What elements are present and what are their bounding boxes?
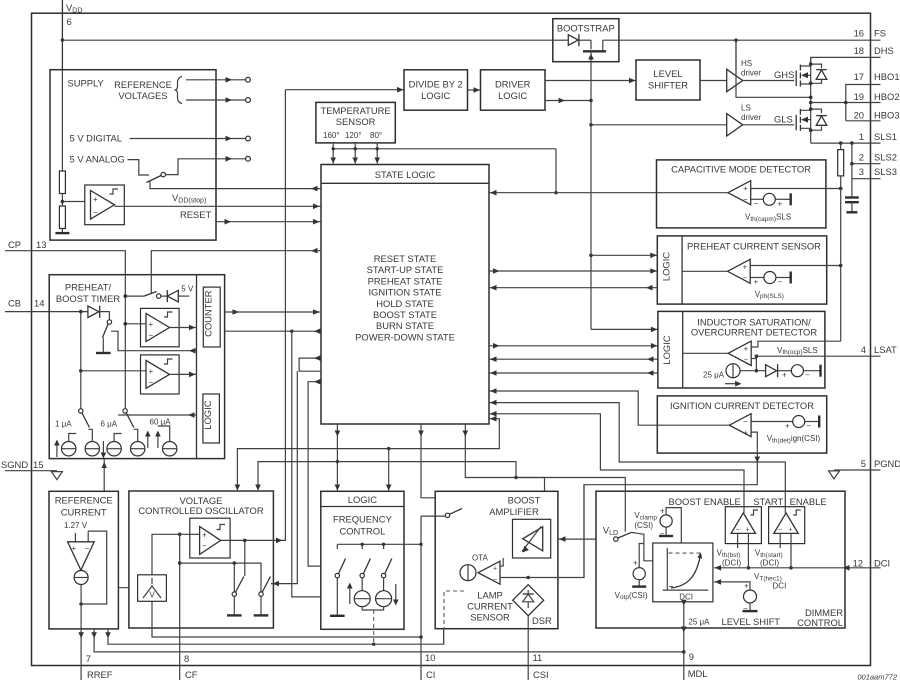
svg-text:VOLTAGE: VOLTAGE [180, 495, 223, 506]
resistor supply R1 [59, 70, 65, 194]
label 001aam772 [857, 673, 897, 682]
wire lamp bus corner [443, 629, 445, 644]
wire LS driver to GLS gate [743, 124, 795, 126]
source Vclamp [634, 507, 681, 544]
svg-text:+: + [744, 345, 749, 354]
schmitt BOOST ENABLE [725, 507, 761, 544]
svg-text:−: − [754, 199, 759, 208]
wire CI up to lamp switch [421, 515, 445, 517]
svg-text:SLS2: SLS2 [874, 152, 897, 163]
svg-text:+: + [782, 371, 787, 380]
svg-text:PREHEAT/: PREHEAT/ [65, 282, 112, 293]
oscillator schmitt box [190, 518, 230, 558]
switch freq 3 [381, 559, 391, 591]
svg-text:SENSOR: SENSOR [336, 116, 376, 127]
wire logic control row [118, 412, 197, 418]
ground SGND triangle [51, 472, 62, 480]
wire HBO1 [846, 85, 881, 121]
svg-text:SLS3: SLS3 [874, 166, 897, 177]
label 5 V ANALOG [70, 154, 125, 165]
svg-text:ENABLE: ENABLE [790, 496, 827, 507]
svg-text:001aam772: 001aam772 [857, 673, 897, 682]
source timer I5 [158, 426, 177, 456]
block CAPACITIVE MODE DETECTOR [657, 160, 826, 228]
block DIVIDE BY 2 LOGIC [404, 70, 468, 110]
wire capacitive detector out to SL [489, 190, 728, 196]
svg-text:SLS1: SLS1 [874, 131, 897, 142]
comparator timer 2 [81, 355, 179, 394]
wire osc schmitt input inner segment [190, 533, 200, 535]
svg-text:BURN STATE: BURN STATE [376, 320, 434, 331]
pin 7 RREF label [86, 653, 113, 680]
pin 12 DCI label [853, 558, 891, 569]
wire DCI [714, 565, 880, 571]
wire DHS [811, 57, 881, 64]
switch timer current 1 [79, 409, 90, 428]
ground freq switch1 [330, 615, 345, 617]
transistor GHS MOSFET [796, 65, 811, 87]
label state list [355, 253, 455, 342]
svg-text:+: + [754, 278, 759, 287]
svg-text:PREHEAT STATE: PREHEAT STATE [368, 275, 443, 286]
svg-text:−: − [778, 278, 783, 287]
svg-text:7: 7 [86, 653, 91, 664]
wire FS rail drop to HS driver [735, 40, 737, 70]
block BOOST AMPLIFIER [435, 491, 558, 628]
pin 5 PGND label [861, 458, 900, 469]
wire HS driver floating supply [736, 40, 813, 99]
ground PGND triangle [829, 471, 840, 479]
node FS-DHS drop [734, 38, 738, 42]
label DSR [532, 615, 552, 626]
box LOGIC timer [202, 394, 219, 443]
label LOGIC preheat column [661, 252, 672, 281]
svg-text:RESET STATE: RESET STATE [374, 253, 437, 264]
wire PGND [834, 469, 881, 471]
wire VDD(stop) to state logic [115, 204, 322, 210]
box DCI curve [653, 543, 713, 602]
wire SLS1 [811, 141, 881, 145]
wire capacitive detector output redraw [657, 192, 729, 194]
svg-text:−: − [744, 356, 749, 365]
svg-text:LOGIC: LOGIC [348, 494, 377, 505]
switch VCO 1 [232, 577, 244, 615]
arrow rref [78, 632, 84, 638]
svg-text:25 μA: 25 μA [688, 618, 710, 627]
label HS driver [741, 59, 761, 78]
wire route to VCO top 2 [255, 462, 518, 491]
wire freq sources join dashed [362, 607, 383, 646]
svg-text:FREQUENCY: FREQUENCY [333, 513, 393, 524]
svg-text:2: 2 [859, 152, 864, 163]
wire CB redraw inside timer [49, 310, 88, 314]
svg-text:15: 15 [33, 459, 43, 470]
node LS driver junction [589, 123, 593, 127]
switch VCO 2 [259, 577, 271, 615]
switch timer current 2 [123, 409, 134, 428]
svg-text:+: + [149, 367, 154, 376]
switch VLD [614, 532, 632, 541]
pin VDD label [66, 2, 82, 15]
wire CB vertical [79, 312, 83, 409]
svg-text:19: 19 [854, 91, 864, 102]
block TEMPERATURE SENSOR [316, 102, 395, 142]
label 6 uA [101, 420, 118, 429]
switch freq 2 [360, 559, 370, 591]
svg-text:STATE LOGIC: STATE LOGIC [375, 169, 436, 180]
svg-text:−: − [805, 371, 810, 380]
wire cap comparator plus input [751, 187, 843, 191]
block INDUCTOR SATURATION OVERCURRENT DETECTOR [658, 311, 825, 388]
wire VDD rail to FS [62, 39, 880, 41]
block STATE LOGIC [321, 165, 489, 425]
wire preheat logic out to SL [489, 285, 657, 291]
source 25 uA inductor [703, 364, 742, 387]
node CP timer tap [124, 294, 128, 298]
svg-text:−: − [743, 417, 748, 426]
resistor supply R2 [59, 194, 65, 233]
svg-text:LS: LS [741, 104, 751, 113]
switch lamp sensor [445, 509, 462, 518]
rail freq switches [337, 543, 422, 549]
svg-text:LOGIC: LOGIC [202, 400, 213, 429]
diode bootstrap [568, 34, 579, 46]
svg-text:LOGIC: LOGIC [421, 90, 450, 101]
svg-text:−: − [149, 331, 154, 340]
svg-text:+: + [93, 195, 98, 204]
pin 9 MDL label [688, 651, 708, 679]
svg-text:14: 14 [34, 298, 44, 309]
svg-text:HOLD STATE: HOLD STATE [376, 298, 433, 309]
box boost variable amplifier [513, 519, 551, 558]
svg-text:SHIFTER: SHIFTER [648, 80, 688, 91]
block PREHEAT BOOST TIMER [49, 275, 224, 459]
wire boost enable inputs [738, 533, 751, 569]
arrow up I4 [145, 431, 151, 449]
wire divider to comparator [62, 201, 84, 203]
svg-text:+: + [660, 507, 665, 516]
svg-text:LSAT: LSAT [874, 344, 897, 355]
svg-text:+: + [744, 582, 749, 591]
wire counter to state logic [225, 309, 321, 315]
wire bootstrap column down [590, 125, 592, 330]
block IGNITION CURRENT DETECTOR [657, 396, 826, 453]
svg-text:5 V: 5 V [181, 285, 194, 294]
svg-text:−: − [93, 208, 98, 217]
svg-text:OTA: OTA [472, 554, 489, 563]
svg-text:BOOST TIMER: BOOST TIMER [56, 293, 120, 304]
pin 18 DHS label [854, 45, 894, 56]
arrow down freq I2 [393, 584, 399, 606]
wire bootstrap source down [588, 51, 594, 125]
label Vth(det)ign(CSI) [767, 434, 821, 444]
wire SL to freq control input lower [292, 331, 321, 597]
wire OTA minus output [500, 485, 584, 580]
block PREHEAT CURRENT SENSOR [657, 236, 826, 304]
source Vth(det)ign [751, 416, 819, 431]
svg-text:+: + [743, 184, 748, 193]
wire RESET to state logic [216, 219, 321, 225]
svg-text:−: − [807, 422, 812, 431]
svg-text:1: 1 [859, 131, 864, 142]
wire SGND [5, 470, 57, 472]
svg-text:REFERENCE: REFERENCE [55, 495, 113, 506]
svg-text:BOOST: BOOST [508, 495, 541, 506]
svg-text:GHS: GHS [774, 69, 794, 80]
wire reference output down [80, 585, 82, 681]
comparator capacitive mode [728, 181, 751, 205]
converter V to I box [138, 575, 167, 602]
wire CF feedback vertical [178, 534, 182, 680]
svg-text:MDL: MDL [688, 668, 708, 679]
svg-text:−: − [493, 577, 497, 584]
svg-text:DIVIDE BY 2: DIVIDE BY 2 [409, 79, 463, 90]
box COUNTER [203, 287, 221, 347]
block BOOTSTRAP [553, 19, 619, 62]
svg-text:CONTROL: CONTROL [339, 526, 385, 537]
wire state logic to counter return [225, 328, 321, 334]
diode GHS body [811, 64, 827, 83]
svg-text:(DCI): (DCI) [722, 559, 741, 568]
label RESET [180, 209, 212, 220]
svg-text:−: − [85, 544, 90, 553]
label BOOTSTRAP [557, 23, 615, 34]
wire timer bias input [101, 459, 107, 492]
svg-text:LEVEL: LEVEL [653, 68, 682, 79]
wire SL right to logic top route [386, 416, 499, 491]
wire SL to inductor logic input2 [489, 343, 658, 349]
svg-text:LOGIC: LOGIC [661, 335, 672, 364]
arrow down I3 [101, 441, 107, 459]
capacitor SLS filter [845, 198, 859, 213]
wire 5V switch feed from state logic [151, 248, 321, 294]
svg-text:CF: CF [185, 669, 198, 680]
svg-text:16: 16 [854, 28, 864, 39]
label 1 uA [55, 420, 72, 429]
resistor SLS sense [838, 143, 844, 189]
svg-text:20: 20 [854, 110, 864, 121]
block REFERENCE CURRENT [49, 491, 118, 629]
wire reference feedback [79, 531, 106, 606]
svg-text:START: START [753, 496, 783, 507]
transistor GLS MOSFET [796, 109, 811, 131]
svg-text:−: − [149, 378, 154, 387]
svg-text:3: 3 [859, 166, 864, 177]
wire VLD into boost amp [558, 536, 614, 542]
comparator timer 1 [125, 308, 179, 346]
svg-text:CI: CI [426, 669, 435, 680]
svg-text:LAMP: LAMP [477, 590, 503, 601]
svg-text:8: 8 [184, 653, 189, 664]
node driver lower junction [589, 99, 593, 103]
svg-text:+: + [743, 263, 748, 272]
svg-text:1.27 V: 1.27 V [64, 521, 88, 530]
source Vth(ocp) [782, 365, 821, 380]
block DRIVER LOGIC [481, 70, 546, 110]
wire comp2 out [170, 372, 197, 378]
svg-text:SGND: SGND [1, 459, 28, 470]
label 5 V [181, 285, 194, 294]
label Votp(CSI) [615, 591, 648, 601]
svg-text:25 μA: 25 μA [703, 371, 725, 380]
wire reference voltage out 1 [186, 77, 250, 83]
svg-text:POWER-DOWN STATE: POWER-DOWN STATE [355, 331, 455, 342]
wire 5 V digital out [130, 136, 251, 142]
diamond DSR [513, 585, 544, 616]
svg-text:6: 6 [67, 16, 72, 27]
svg-text:120°: 120° [345, 131, 362, 140]
wire VI up to schmitt input [152, 534, 190, 575]
svg-text:+: + [785, 422, 790, 431]
diode GLS body [811, 109, 827, 130]
label Vph(SLS) [755, 290, 784, 300]
node osc plus [178, 533, 182, 537]
wire preheat plus input [750, 264, 842, 268]
source timer I1 [61, 434, 76, 456]
label LAMP CURRENT SENSOR [467, 590, 513, 623]
svg-text:V: V [149, 591, 155, 600]
wire level shifter to HS driver [700, 80, 727, 82]
label LEVEL SHIFT [722, 616, 781, 627]
wire osc out to switch1 [244, 540, 246, 576]
wire preheat logic input1 [591, 253, 657, 259]
pin 11 CSI label [533, 652, 549, 680]
wire SL U loop [299, 355, 321, 371]
ground VCO switch2 [254, 614, 269, 616]
svg-text:COUNTER: COUNTER [203, 290, 214, 337]
wire SL down to boost amp control [463, 424, 545, 519]
label 25 uA MDL [688, 618, 710, 627]
pin 6 number [67, 16, 72, 27]
comparator preheat sensor [682, 259, 750, 283]
block LOGIC FREQUENCY CONTROL [321, 491, 404, 629]
pin VDD wire [61, 0, 63, 70]
wire switch rail [180, 561, 261, 592]
svg-text:160°: 160° [323, 131, 340, 140]
svg-text:PGND: PGND [874, 458, 900, 469]
svg-text:START-UP STATE: START-UP STATE [367, 264, 444, 275]
label REFERENCE VOLTAGES [114, 77, 182, 104]
source Vph(SLS) [750, 272, 791, 287]
wire bias out 2 [91, 629, 684, 652]
wire half bridge vertical [810, 57, 812, 143]
wire inductor logic out3 to SL [489, 356, 658, 362]
wire OTA plus from amp [500, 558, 503, 566]
svg-text:driver: driver [741, 113, 761, 122]
node drain GHS [809, 62, 813, 66]
wire MDL column [681, 600, 687, 680]
label Vth(ocp)SLS [777, 346, 818, 356]
ground VCO switch1 [227, 614, 242, 616]
wire switch common to state logic [150, 181, 321, 191]
svg-text:REFERENCE: REFERENCE [114, 79, 172, 90]
diode 5V [161, 290, 189, 302]
svg-text:BOOST STATE: BOOST STATE [373, 309, 437, 320]
svg-text:SUPPLY: SUPPLY [68, 78, 105, 89]
svg-text:+: + [493, 566, 497, 573]
wire CI column [419, 516, 423, 680]
node source GHS [809, 82, 813, 86]
svg-text:+: + [72, 544, 77, 553]
svg-text:DCI: DCI [874, 558, 890, 569]
block LEVEL SHIFTER [636, 60, 700, 100]
wire LS driver input [591, 124, 727, 126]
wire HBO2 [811, 101, 881, 105]
svg-text:18: 18 [854, 45, 864, 56]
svg-text:+: + [633, 559, 638, 568]
svg-text:VOLTAGES: VOLTAGES [118, 90, 167, 101]
pin 8 CF label [184, 653, 198, 680]
svg-text:CONTROL: CONTROL [797, 617, 843, 628]
wire comp1 out [170, 325, 197, 331]
wire ref to VI converter [118, 585, 137, 591]
svg-text:HS: HS [741, 59, 752, 68]
svg-text:CONTROLLED OSCILLATOR: CONTROLLED OSCILLATOR [138, 505, 263, 516]
wire CB [5, 310, 88, 314]
pin 16 FS label [854, 28, 886, 39]
switch freq 1 [335, 559, 345, 615]
svg-text:(DCI): (DCI) [760, 559, 779, 568]
wire inductor minus to LSAT node [751, 354, 758, 372]
wire CP [5, 251, 125, 409]
svg-text:IGNITION CURRENT DETECTOR: IGNITION CURRENT DETECTOR [670, 400, 814, 411]
pin SGND label [1, 459, 43, 470]
svg-text:DCI: DCI [773, 582, 787, 591]
svg-text:60 μA: 60 μA [150, 418, 172, 427]
svg-text:6 μA: 6 μA [101, 420, 118, 429]
svg-text:HBO1: HBO1 [874, 71, 900, 82]
wire SLS3 [852, 143, 881, 197]
arrow up I1 [54, 440, 60, 458]
svg-text:driver: driver [741, 69, 761, 78]
svg-text:(CSI): (CSI) [634, 521, 653, 530]
wire SL to freq control input upper [308, 379, 321, 566]
wire SL to preheat logic input2 [489, 268, 657, 274]
source Vth(capm)SLS [751, 193, 791, 208]
label GLS [774, 114, 793, 125]
svg-text:LOGIC: LOGIC [498, 90, 527, 101]
svg-text:−: − [202, 542, 207, 551]
node divider tap [61, 200, 65, 204]
wire switch to analog out [165, 156, 250, 175]
arrow up I5 [155, 431, 161, 449]
svg-text:CSI: CSI [533, 669, 549, 680]
label Vth(capm)SLS [745, 213, 791, 223]
svg-text:DRIVER: DRIVER [495, 79, 531, 90]
svg-text:HBO3: HBO3 [874, 110, 900, 121]
svg-text:13: 13 [36, 239, 46, 250]
node comp1 feed [124, 322, 128, 326]
dashed lamp sensor outline [444, 591, 464, 629]
wire route to VCO top 1 [235, 449, 389, 491]
comparator inductor saturation [683, 341, 751, 365]
node drain GLS [809, 107, 813, 111]
pin 19 HBO2 label [854, 91, 900, 102]
svg-text:−: − [736, 527, 740, 534]
wire LSAT [756, 355, 880, 357]
wire SL to boost enable [489, 411, 744, 513]
wire start enable inputs [780, 533, 793, 569]
block VOLTAGE CONTROLLED OSCILLATOR [129, 491, 274, 628]
svg-text:11: 11 [533, 652, 543, 663]
svg-text:4: 4 [861, 344, 866, 355]
label VDD(stop) [172, 192, 206, 205]
block SUPPLY [50, 70, 216, 240]
pin 3 SLS3 label [859, 166, 897, 177]
wire bias out 3 [105, 629, 443, 644]
svg-text:CAPACITIVE MODE DETECTOR: CAPACITIVE MODE DETECTOR [671, 164, 811, 175]
svg-text:80°: 80° [370, 131, 382, 140]
